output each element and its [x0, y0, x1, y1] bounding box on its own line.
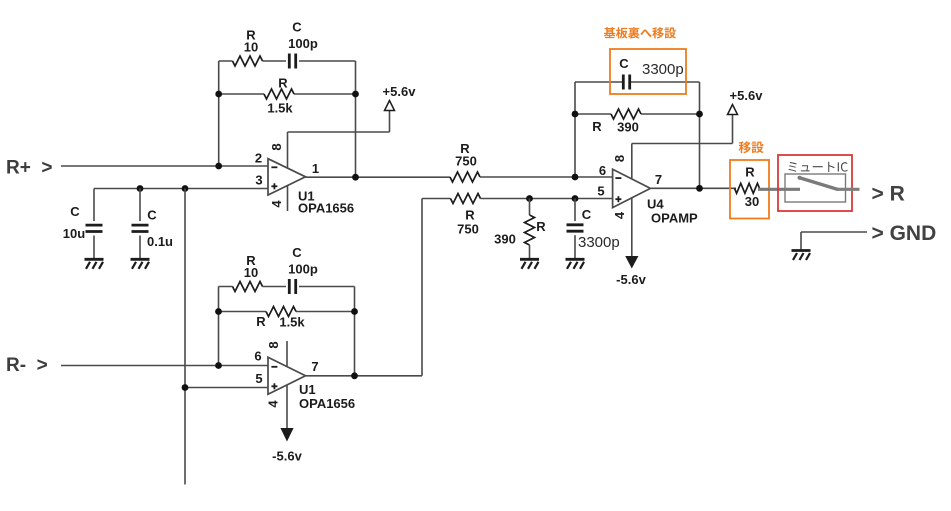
svg-text:U4: U4	[647, 197, 664, 212]
node junction fb-left / R+ wire	[215, 163, 222, 170]
wire long vertical to lower stage	[184, 189, 186, 485]
pin 4 (V-) marker U1b	[266, 385, 288, 428]
capacitor C6 100p	[288, 245, 318, 294]
wire R+ input to U1 pin 2	[61, 165, 268, 167]
svg-text:R: R	[278, 75, 288, 90]
node junction fb-left / mid branch	[215, 91, 222, 98]
svg-text:> R: > R	[872, 183, 905, 206]
resistor R4 750 (lower)	[451, 194, 481, 237]
svg-text:-5.6v: -5.6v	[272, 449, 302, 464]
resistor R1 10	[233, 27, 263, 66]
wire feedback mid branch (stage 2)	[219, 311, 355, 313]
svg-text:OPAMP: OPAMP	[651, 211, 698, 226]
label R- input	[6, 355, 48, 376]
op-amp U4 OPAMP	[597, 163, 698, 226]
svg-text:+5.6v: +5.6v	[730, 88, 764, 103]
wire R- input to U1 pin 6	[61, 365, 268, 367]
svg-text:C: C	[292, 19, 302, 34]
node junction C4 3300p shunt	[572, 195, 579, 202]
svg-text:390: 390	[617, 120, 639, 135]
node junction R5 390 shunt	[526, 195, 533, 202]
svg-text:OPA1656: OPA1656	[299, 396, 355, 411]
svg-text:R: R	[256, 314, 266, 329]
resistor R3 750 (upper)	[450, 141, 480, 182]
label ミュートIC	[788, 162, 847, 172]
svg-text:8: 8	[266, 341, 281, 348]
node U1b output junction	[351, 372, 358, 379]
node junction fb-right / mid branch	[352, 91, 359, 98]
capacitor C4 3300p shunt to ground	[567, 199, 592, 260]
svg-text:R: R	[745, 165, 755, 180]
svg-text:3300p: 3300p	[642, 61, 684, 78]
node junction fb-right / mid (stage 2)	[351, 308, 358, 315]
svg-text:6: 6	[254, 349, 261, 364]
svg-text:4: 4	[612, 211, 627, 219]
svg-text:5: 5	[255, 371, 262, 386]
power +5.6v (stage 1)	[383, 84, 417, 111]
orange box around R7	[730, 160, 769, 219]
wire R7 to mute IC (thick)	[758, 188, 800, 191]
capacitor C1 100p	[288, 19, 318, 68]
pin 4 (V-) stub U1a	[269, 185, 288, 211]
svg-text:3300p: 3300p	[578, 234, 620, 251]
svg-text:+5.6v: +5.6v	[383, 84, 417, 99]
svg-text:U1: U1	[299, 382, 316, 397]
svg-text:30: 30	[745, 194, 759, 209]
capacitor C5 3300p (feedback)	[619, 56, 629, 90]
node junction C2 0.1u	[137, 185, 144, 192]
pin 8 (V+) marker U1a	[269, 132, 288, 168]
node junction fb-left / pin 6 wire	[572, 174, 579, 181]
capacitor C3 10u	[63, 189, 103, 260]
wire feedback left vertical (stage 1)	[218, 61, 220, 166]
svg-text:1: 1	[312, 161, 319, 176]
svg-text:3: 3	[255, 173, 262, 188]
svg-text:> GND: > GND	[872, 222, 937, 245]
wire feedback right vertical (stage 1)	[355, 61, 357, 177]
wire R3 to U4 pin 6	[480, 176, 613, 178]
label 3300p (C5 value)	[642, 61, 684, 78]
wire U4 feedback left vertical	[574, 82, 576, 177]
svg-text:4: 4	[269, 200, 284, 208]
svg-text:R: R	[536, 219, 546, 234]
wire feedback top branch (stage 2)	[219, 286, 355, 288]
ground under C2	[131, 259, 150, 269]
label 移設 (relocate)	[739, 141, 764, 153]
svg-text:R: R	[465, 208, 475, 223]
resistor R7 30	[735, 165, 760, 209]
svg-text:-5.6v: -5.6v	[616, 272, 646, 287]
svg-text:10: 10	[244, 40, 258, 55]
svg-text:C: C	[147, 208, 157, 223]
node junction fb-left / R- wire	[215, 362, 222, 369]
mute IC body	[785, 174, 846, 202]
power -5.6v (U1b)	[272, 428, 302, 464]
svg-text:10u: 10u	[63, 226, 85, 241]
svg-text:7: 7	[655, 172, 662, 187]
wire U1b output	[306, 375, 423, 377]
svg-text:100p: 100p	[288, 36, 318, 51]
ground at output	[792, 251, 811, 261]
label R output terminal	[872, 183, 905, 206]
label 基板裏へ移設 (move to board back)	[604, 27, 676, 38]
red box around mute IC	[778, 155, 852, 211]
node U4 output junction	[696, 185, 703, 192]
op-amp U1 (second half) OPA1656	[254, 349, 355, 412]
svg-text:6: 6	[599, 163, 606, 178]
node junction long vertical / pin 5	[182, 384, 189, 391]
resistor R2 1.5k	[264, 75, 294, 115]
wire U4 feedback right vertical	[699, 82, 701, 189]
wire U4 feedback top branch	[575, 81, 700, 83]
svg-text:100p: 100p	[288, 261, 318, 276]
resistor R6 390 (feedback)	[592, 109, 641, 135]
wire U1b output riser to R4	[422, 199, 451, 376]
svg-text:10: 10	[244, 265, 258, 280]
power -5.6v (U4)	[616, 256, 646, 287]
svg-text:C: C	[582, 207, 592, 222]
svg-text:OPA1656: OPA1656	[298, 201, 354, 216]
capacitor C2 0.1u	[132, 189, 174, 260]
node junction long vertical	[182, 185, 189, 192]
resistor R5 390 shunt to ground	[494, 199, 546, 260]
wire feedback right vertical (stage 2)	[354, 287, 356, 376]
svg-text:R: R	[592, 119, 602, 134]
svg-text:5: 5	[597, 184, 604, 199]
svg-text:390: 390	[494, 232, 516, 247]
node U1a output junction	[352, 174, 359, 181]
svg-text:R- >: R- >	[6, 355, 48, 376]
power +5.6v (U4)	[728, 88, 764, 115]
wire U1a output	[306, 176, 451, 178]
svg-text:8: 8	[612, 155, 627, 162]
svg-text:2: 2	[255, 151, 262, 166]
ground under R5	[520, 259, 539, 269]
ground under C3	[85, 259, 104, 269]
svg-text:R+ >: R+ >	[6, 158, 52, 179]
wire GND terminal to ground	[801, 232, 867, 251]
wire V+ rail to +5.6v (U4)	[632, 115, 733, 144]
wire U1b pin 5 net	[185, 387, 268, 389]
svg-text:7: 7	[311, 359, 318, 374]
resistor R8 10	[233, 253, 263, 292]
label GND terminal	[872, 222, 937, 245]
pin 8 (V+) stub U1b	[266, 341, 287, 367]
wire feedback left vertical (stage 2)	[218, 287, 220, 366]
wire feedback top branch (stage 1)	[219, 60, 356, 62]
pin 4 (V-) marker U4	[612, 198, 632, 256]
svg-text:0.1u: 0.1u	[147, 234, 173, 249]
label 3300p (C4 value)	[578, 234, 620, 251]
pin 8 (V+) marker U4	[612, 144, 632, 180]
orange box around C5	[610, 49, 686, 94]
wire feedback mid branch (stage 1)	[219, 93, 356, 95]
svg-text:4: 4	[266, 400, 281, 408]
wire U4 output	[650, 187, 736, 189]
svg-text:750: 750	[455, 154, 477, 169]
node junction fb-left / mid (U4)	[572, 111, 579, 118]
ground under C4	[566, 259, 585, 269]
wire U4 feedback mid branch	[575, 113, 700, 115]
label R+ input	[6, 158, 52, 179]
wire thick output to R terminal	[837, 188, 860, 191]
wire V+ rail to +5.6v (stage 1)	[288, 111, 390, 133]
node junction fb-left / mid (stage 2)	[215, 308, 222, 315]
svg-text:1.5k: 1.5k	[267, 100, 293, 115]
mute IC switch lever	[798, 176, 839, 190]
svg-text:8: 8	[269, 143, 284, 150]
svg-text:C: C	[70, 204, 80, 219]
resistor R9 1.5k	[256, 307, 305, 330]
svg-text:750: 750	[457, 222, 479, 237]
wire U1a pin3 net horizontal	[94, 188, 268, 190]
svg-text:C: C	[619, 56, 629, 71]
svg-text:C: C	[292, 245, 302, 260]
svg-text:1.5k: 1.5k	[279, 314, 305, 329]
node junction fb-right / mid (U4)	[696, 111, 703, 118]
op-amp U1 (first half) OPA1656	[255, 151, 354, 216]
wire R4 to U4 pin 5	[481, 198, 613, 200]
